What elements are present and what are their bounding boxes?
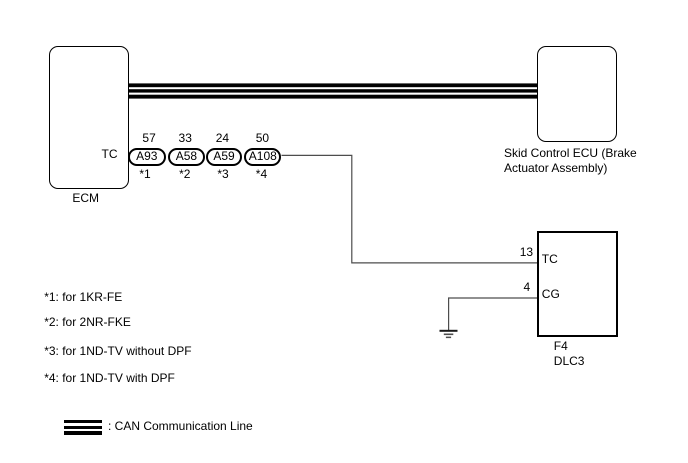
- legend text : CAN Communication Line: [108, 419, 253, 433]
- label Skid Control ECU (Brake Actuator Assembly): [504, 146, 637, 176]
- footnote marker *1: [139, 167, 150, 181]
- pin number 50: [256, 131, 269, 145]
- label DLC3: [554, 354, 585, 368]
- DLC3 box: [537, 231, 618, 337]
- pin label TC (ECM side): [102, 147, 118, 161]
- connector A108: [244, 148, 281, 166]
- footnote marker *3: [217, 167, 228, 181]
- legend CAN line symbol: [64, 420, 103, 435]
- pin number 4: [524, 280, 531, 294]
- ECM box: [49, 46, 130, 189]
- footnote marker *2: [179, 167, 190, 181]
- connector A93: [128, 148, 167, 166]
- note *1: for 1KR-FE: [44, 290, 122, 304]
- note *3: for 1ND-TV without DPF: [44, 344, 191, 358]
- pin label CG (DLC3): [542, 287, 560, 301]
- label F4: [554, 339, 568, 353]
- wire A108 to DLC3 pin 13 (TC): [282, 155, 538, 263]
- wire DLC3 pin 4 (CG) to ground: [449, 298, 537, 330]
- pin number 33: [179, 131, 192, 145]
- pin number 24: [216, 131, 229, 145]
- label ECM: [72, 191, 99, 205]
- ground symbol: [440, 330, 458, 338]
- footnote marker *4: [256, 167, 267, 181]
- pin label TC (DLC3): [542, 252, 558, 266]
- Skid Control ECU box: [537, 46, 618, 142]
- pin number 13: [520, 245, 533, 259]
- note *4: for 1ND-TV with DPF: [44, 371, 175, 385]
- note *2: for 2NR-FKE: [44, 315, 131, 329]
- connector A58: [168, 148, 205, 166]
- connector A59: [206, 148, 242, 166]
- pin number 57: [142, 131, 155, 145]
